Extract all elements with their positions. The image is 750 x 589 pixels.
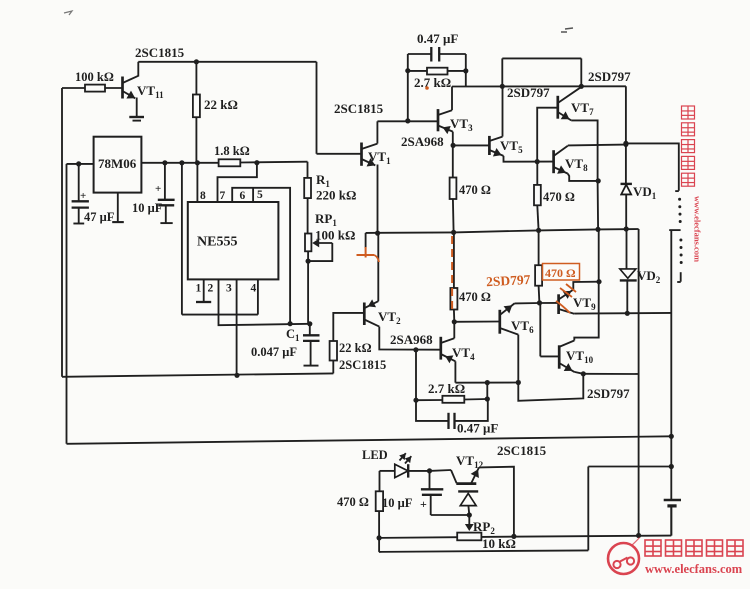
svg-text:10 kΩ: 10 kΩ — [482, 536, 516, 551]
svg-text:22 kΩ: 22 kΩ — [339, 341, 372, 355]
svg-text:VT12: VT12 — [456, 453, 484, 470]
svg-text:2SD797: 2SD797 — [486, 272, 531, 289]
svg-text:www.elecfans.com: www.elecfans.com — [693, 196, 703, 262]
svg-text:5: 5 — [257, 189, 263, 201]
svg-text:VT10: VT10 — [566, 348, 594, 365]
svg-text:100 kΩ: 100 kΩ — [315, 228, 355, 243]
svg-text:100 kΩ: 100 kΩ — [75, 70, 114, 84]
svg-text:NE555: NE555 — [197, 235, 237, 250]
svg-text:VD1: VD1 — [633, 184, 657, 201]
svg-text:7: 7 — [220, 190, 226, 202]
svg-text:RP1: RP1 — [315, 211, 337, 228]
svg-text:2SC1815: 2SC1815 — [135, 45, 185, 60]
svg-text:VT3: VT3 — [450, 116, 473, 133]
svg-text:C1: C1 — [286, 327, 300, 343]
svg-text:0.47 μF: 0.47 μF — [417, 31, 458, 46]
svg-text:2SD797: 2SD797 — [587, 386, 630, 401]
svg-text:2: 2 — [208, 283, 214, 295]
svg-text:4: 4 — [251, 283, 257, 295]
svg-text:VT4: VT4 — [452, 345, 475, 362]
svg-text:470 Ω: 470 Ω — [459, 183, 491, 197]
svg-text:+: + — [420, 497, 427, 511]
svg-text:2SC1815: 2SC1815 — [334, 101, 384, 116]
svg-text:VD2: VD2 — [637, 268, 661, 285]
svg-text:VT7: VT7 — [571, 100, 594, 117]
svg-text:470 Ω: 470 Ω — [459, 290, 491, 304]
svg-text:220 kΩ: 220 kΩ — [316, 188, 356, 203]
svg-text:470 Ω: 470 Ω — [337, 495, 369, 509]
svg-text:2.7 kΩ: 2.7 kΩ — [428, 381, 465, 396]
svg-text:2.7 kΩ: 2.7 kΩ — [414, 75, 451, 90]
svg-text:3: 3 — [226, 283, 232, 295]
svg-text:10 μF: 10 μF — [132, 201, 163, 215]
svg-text:2SD797: 2SD797 — [588, 69, 631, 84]
svg-text:470 Ω: 470 Ω — [545, 266, 576, 280]
svg-text:+: + — [80, 190, 86, 202]
svg-text:VT9: VT9 — [573, 295, 596, 312]
svg-text:RP2: RP2 — [473, 519, 495, 536]
svg-text:VT6: VT6 — [511, 318, 534, 335]
svg-text:470 Ω: 470 Ω — [543, 190, 575, 204]
svg-text:R1: R1 — [316, 172, 330, 189]
svg-text:78M06: 78M06 — [98, 156, 137, 171]
svg-text:www.elecfans.com: www.elecfans.com — [645, 562, 743, 576]
svg-text:1: 1 — [196, 283, 202, 295]
svg-text:+: + — [155, 183, 161, 195]
svg-text:VT5: VT5 — [500, 138, 523, 155]
svg-text:VT2: VT2 — [378, 309, 401, 326]
svg-text:2SC1815: 2SC1815 — [497, 443, 547, 458]
svg-text:0.047 μF: 0.047 μF — [251, 345, 297, 359]
svg-text:2SA968: 2SA968 — [401, 134, 444, 149]
svg-text:2SD797: 2SD797 — [507, 85, 550, 100]
svg-text:0.47 μF: 0.47 μF — [457, 421, 498, 436]
svg-text:8: 8 — [200, 190, 206, 202]
svg-text:VT11: VT11 — [137, 83, 164, 100]
svg-text:VT1: VT1 — [368, 149, 391, 166]
svg-text:6: 6 — [240, 190, 246, 202]
svg-text:2SA968: 2SA968 — [390, 332, 433, 347]
svg-text:2SC1815: 2SC1815 — [339, 358, 386, 372]
svg-text:47 μF: 47 μF — [84, 210, 115, 224]
svg-text:VT8: VT8 — [565, 156, 588, 173]
svg-text:LED: LED — [362, 448, 388, 462]
svg-text:1.8 kΩ: 1.8 kΩ — [214, 144, 250, 158]
svg-text:22 kΩ: 22 kΩ — [204, 97, 238, 112]
svg-text:10 μF: 10 μF — [382, 496, 413, 510]
